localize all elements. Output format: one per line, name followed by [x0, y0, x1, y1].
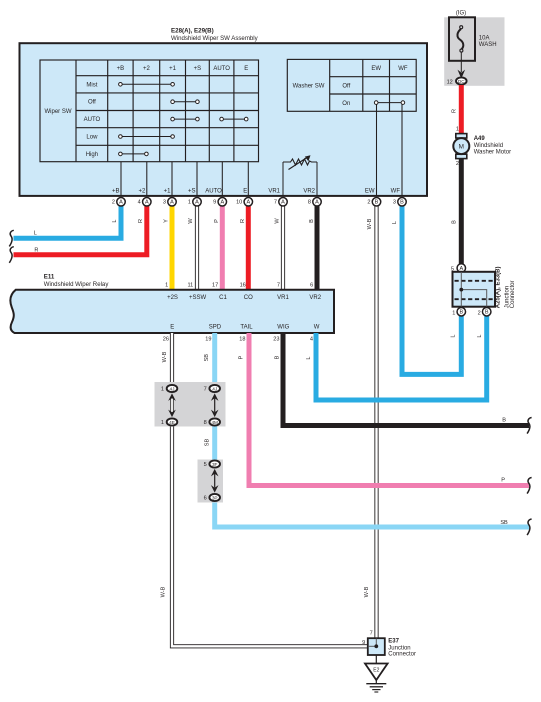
relay top pin numbers [165, 282, 313, 288]
svg-text:C1: C1 [219, 295, 227, 301]
svg-text:+2: +2 [143, 66, 151, 72]
label E28(A), E29(B) Windshield Wiper SW Assembly [171, 28, 259, 42]
arrows between 4J and 4E [168, 393, 176, 417]
connector 3P pin 6 [204, 494, 220, 502]
svg-text:2: 2 [456, 161, 459, 167]
svg-text:26: 26 [163, 337, 169, 343]
switch contact Low row [119, 135, 175, 139]
svg-text:EW: EW [365, 189, 375, 195]
svg-text:+1: +1 [169, 66, 177, 72]
svg-text:4M: 4M [211, 420, 218, 425]
svg-text:A: A [145, 200, 149, 206]
pin 8(A) VR2 [308, 198, 321, 207]
svg-text:E: E [244, 66, 248, 72]
svg-text:+B: +B [112, 189, 120, 195]
svg-text:DC: DC [458, 79, 465, 84]
svg-text:A: A [281, 200, 285, 206]
wire W-B from EW to E37 [374, 200, 378, 639]
relay top pin names [167, 295, 322, 301]
svg-text:WIG: WIG [277, 324, 289, 330]
wire L from WF to junction pin 1 [402, 200, 461, 374]
svg-text:Junction: Junction [388, 645, 410, 651]
svg-text:W-B: W-B [367, 218, 373, 229]
wire continuation squiggle left R [9, 247, 14, 263]
ground lead from E37 [375, 655, 377, 664]
svg-text:A: A [315, 200, 319, 206]
svg-text:23: 23 [273, 337, 279, 343]
switch contact Off row [171, 100, 199, 104]
svg-text:1: 1 [161, 420, 164, 426]
relay E11 box [10, 290, 334, 333]
svg-text:A25(A), E33(B): A25(A), E33(B) [496, 267, 502, 309]
svg-text:Washer SW: Washer SW [293, 84, 325, 90]
wire continuation squiggle right P [527, 478, 532, 494]
svg-text:4: 4 [138, 200, 141, 206]
svg-text:B: B [451, 220, 457, 224]
svg-text:Windshield Wiper SW Assembly: Windshield Wiper SW Assembly [171, 35, 259, 42]
svg-text:W: W [314, 324, 320, 330]
svg-text:E11: E11 [44, 274, 55, 281]
connector 4E pin 1 [161, 418, 177, 426]
pin 2(B) EW [367, 198, 380, 207]
svg-text:W-B: W-B [364, 586, 370, 597]
label E37 Junction Connector [388, 639, 416, 658]
switch contact High row [119, 152, 149, 156]
internal line +1 [171, 162, 173, 195]
svg-text:B: B [309, 219, 315, 223]
arrows between 3F and 3P [211, 469, 219, 493]
ground symbol [366, 680, 386, 692]
connector assembly E28/E29 box [20, 43, 428, 196]
svg-text:8: 8 [308, 200, 311, 206]
svg-text:1: 1 [452, 310, 455, 316]
svg-text:Mist: Mist [86, 82, 97, 88]
svg-text:1: 1 [165, 282, 168, 288]
svg-text:+2S: +2S [167, 295, 178, 301]
svg-text:WF: WF [391, 189, 401, 195]
svg-text:P: P [214, 219, 220, 223]
pin 10(A) E [236, 198, 252, 207]
wire R from +2 [14, 200, 147, 255]
switch contact Mist row [119, 83, 175, 87]
wire B motor to junction [459, 159, 464, 265]
svg-text:4J: 4J [212, 387, 217, 392]
junction pin 1(B) [452, 307, 465, 316]
svg-text:2: 2 [112, 200, 115, 206]
washer switch table grid [287, 59, 416, 111]
wire SB relay SPD [215, 333, 529, 527]
svg-text:AUTO: AUTO [213, 66, 230, 72]
svg-text:+S: +S [188, 189, 196, 195]
pin 3(A) +1 [163, 198, 176, 207]
label A25(A), E33(B) Junction Connector [496, 267, 516, 309]
connector pass-through 4J/4E 4J/4M gray box [155, 382, 226, 427]
internal line AUTO [221, 162, 223, 195]
wire Y +1 to relay [170, 200, 175, 289]
svg-text:P: P [501, 478, 505, 484]
svg-text:1: 1 [188, 200, 191, 206]
arrows between 4J and 4M [211, 393, 219, 417]
wire P AUTO to relay [220, 200, 225, 289]
svg-text:Off: Off [88, 100, 96, 106]
junction pin 2(B) [478, 307, 491, 316]
svg-text:1: 1 [161, 387, 164, 393]
svg-text:Washer Motor: Washer Motor [474, 149, 511, 155]
svg-text:+B: +B [117, 66, 125, 72]
E37 junction connector box [368, 638, 385, 655]
pin 9(A) AUTO [213, 198, 226, 207]
relay bottom pin names [170, 324, 319, 330]
pin 4(A) +2 [138, 198, 151, 207]
washer switch contact On row [374, 101, 404, 105]
svg-text:A: A [220, 200, 224, 206]
svg-text:B: B [485, 310, 489, 316]
svg-text:3: 3 [393, 200, 396, 206]
svg-text:CO: CO [244, 295, 253, 301]
svg-text:SB: SB [204, 354, 210, 362]
relay E11 label [44, 274, 110, 288]
svg-text:A49: A49 [474, 136, 486, 142]
fuse 10A WASH box [449, 17, 475, 61]
connector 3F pin 5 [204, 460, 220, 468]
junction connector A25/E33 pin 5(A) [451, 264, 466, 273]
svg-text:2: 2 [478, 310, 481, 316]
svg-text:B: B [459, 310, 463, 316]
svg-text:L: L [112, 219, 118, 222]
svg-text:6: 6 [204, 496, 207, 502]
svg-text:E37: E37 [388, 639, 399, 645]
wiper switch table labels [45, 66, 249, 158]
wire L from +B [14, 200, 122, 238]
svg-text:18: 18 [239, 337, 245, 343]
svg-text:+S: +S [194, 66, 202, 72]
wire continuation squiggle left L [9, 230, 14, 246]
svg-text:B: B [400, 200, 404, 206]
svg-text:R: R [240, 219, 246, 223]
junction connector A25/E33 box [453, 272, 496, 307]
internal line +2 [146, 162, 148, 195]
svg-text:R: R [34, 247, 38, 253]
svg-text:A: A [195, 200, 199, 206]
svg-text:4J: 4J [170, 387, 175, 392]
svg-text:A: A [119, 200, 123, 206]
internal line WF [401, 104, 403, 195]
svg-text:(IG): (IG) [456, 10, 466, 16]
svg-text:7: 7 [277, 282, 280, 288]
wire R E to relay [246, 200, 251, 289]
pin 2(A) +B [112, 198, 125, 207]
svg-text:L: L [392, 221, 398, 224]
svg-text:10: 10 [236, 200, 242, 206]
switch contact AUTO row left [171, 117, 199, 121]
svg-text:5: 5 [204, 462, 207, 468]
svg-text:3: 3 [163, 200, 166, 206]
svg-text:TAIL: TAIL [240, 324, 253, 330]
svg-text:SB: SB [500, 520, 508, 526]
svg-text:8: 8 [204, 420, 207, 426]
svg-text:EW: EW [371, 66, 381, 72]
svg-text:19: 19 [205, 337, 211, 343]
svg-text:2: 2 [367, 200, 370, 206]
rotated wire color labels row 1 [112, 218, 398, 230]
svg-text:Connector: Connector [510, 281, 516, 309]
svg-text:Low: Low [86, 135, 98, 141]
pin 3(B) WF [393, 198, 406, 207]
svg-text:B: B [502, 418, 506, 424]
wire R fuse to motor [459, 85, 464, 134]
svg-text:WF: WF [398, 66, 408, 72]
fuse element [457, 26, 463, 52]
washer motor A49 [453, 134, 469, 159]
svg-text:10A: 10A [479, 35, 490, 41]
connector 4J pin 7 [204, 385, 220, 393]
wire W-B relay E to E37 [172, 333, 368, 646]
arrow from fuse to DC [458, 52, 466, 79]
svg-text:3F: 3F [212, 462, 218, 467]
wire P relay TAIL [249, 333, 529, 486]
svg-text:+1: +1 [164, 189, 172, 195]
fuse gray box [444, 17, 504, 86]
fuse name 10A WASH [479, 35, 497, 48]
pin 1(A) +S [188, 198, 201, 207]
svg-text:High: High [86, 152, 98, 158]
svg-text:L: L [306, 356, 312, 359]
svg-text:AUTO: AUTO [84, 117, 101, 123]
svg-text:E: E [170, 324, 174, 330]
svg-text:Wiper SW: Wiper SW [45, 109, 72, 115]
svg-text:E: E [243, 189, 247, 195]
svg-text:A: A [170, 200, 174, 206]
svg-text:E28(A), E29(B): E28(A), E29(B) [171, 28, 214, 35]
svg-text:3P: 3P [212, 496, 218, 501]
variable resistor VR [283, 155, 317, 195]
svg-text:4E: 4E [169, 420, 175, 425]
rotated wire labels below relay [161, 334, 484, 597]
svg-text:R: R [138, 219, 144, 223]
svg-text:AUTO: AUTO [205, 189, 222, 195]
svg-text:E2: E2 [373, 668, 379, 674]
svg-text:R: R [451, 109, 457, 113]
svg-text:7: 7 [370, 631, 373, 637]
relay bottom pin numbers [163, 337, 313, 343]
svg-text:7: 7 [204, 387, 207, 393]
svg-text:SB: SB [205, 439, 211, 447]
svg-text:A: A [246, 200, 250, 206]
svg-text:Off: Off [342, 84, 350, 90]
svg-text:L: L [34, 231, 37, 237]
svg-text:17: 17 [212, 282, 218, 288]
washer switch table labels [293, 66, 408, 107]
wire W +S to relay [195, 200, 199, 289]
svg-text:L: L [451, 334, 457, 337]
svg-text:W: W [188, 218, 194, 224]
svg-text:VR2: VR2 [309, 295, 321, 301]
svg-text:1: 1 [456, 127, 459, 133]
internal line E [247, 162, 249, 195]
svg-text:Y: Y [164, 219, 170, 223]
connector pass-through 3F/3P gray box [198, 460, 224, 503]
internal line EW [376, 104, 378, 195]
svg-text:9: 9 [213, 200, 216, 206]
connector 4J pin 1 [161, 385, 177, 393]
svg-text:VR1: VR1 [268, 189, 280, 195]
svg-text:4: 4 [310, 337, 313, 343]
wiper switch table grid [40, 60, 259, 162]
svg-text:9: 9 [362, 640, 365, 646]
svg-text:W-B: W-B [161, 586, 167, 597]
svg-text:7: 7 [274, 200, 277, 206]
svg-text:M: M [459, 143, 464, 150]
svg-text:W-B: W-B [162, 351, 168, 362]
svg-text:B: B [375, 200, 379, 206]
wire continuation squiggle right SB [527, 519, 532, 535]
svg-text:16: 16 [240, 282, 246, 288]
wire L relay W to junction pin 2 [316, 312, 487, 400]
terminal 12 DC [447, 77, 467, 85]
internal line +S [196, 162, 198, 195]
wire continuation squiggle right B [527, 418, 532, 434]
svg-text:+2: +2 [138, 189, 146, 195]
svg-text:On: On [342, 101, 350, 107]
svg-text:12: 12 [447, 80, 453, 86]
svg-text:L: L [477, 334, 483, 337]
svg-text:VR1: VR1 [277, 295, 289, 301]
switch contact AUTO row right [220, 117, 248, 121]
svg-text:W: W [275, 218, 281, 224]
connector 4M pin 8 [204, 418, 220, 426]
svg-text:WASH: WASH [479, 42, 497, 48]
wire B relay WIG [283, 333, 529, 426]
svg-text:P: P [239, 356, 245, 360]
svg-text:Windshield Wiper Relay: Windshield Wiper Relay [44, 281, 110, 288]
svg-text:SPD: SPD [209, 324, 222, 330]
pin 7(A) VR1 [274, 198, 287, 207]
internal line +B [120, 162, 122, 195]
wire W VR1 to relay [281, 200, 285, 289]
svg-text:Windshield: Windshield [474, 143, 503, 149]
label A49 Windshield Washer Motor [474, 136, 511, 155]
svg-text:Connector: Connector [388, 652, 416, 658]
svg-text:6: 6 [310, 282, 313, 288]
svg-text:11: 11 [187, 282, 193, 288]
svg-text:VR2: VR2 [303, 189, 315, 195]
svg-text:B: B [275, 355, 281, 359]
ground point triangle E2 [365, 664, 388, 681]
svg-text:+SSW: +SSW [189, 295, 207, 301]
wire B VR2 to relay [315, 200, 320, 289]
